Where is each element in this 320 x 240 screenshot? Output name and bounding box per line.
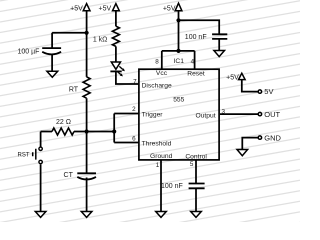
svg-text:100 µF: 100 µF <box>17 49 39 56</box>
svg-text:RT: RT <box>69 86 79 93</box>
svg-text:3: 3 <box>222 108 226 115</box>
svg-text:+5V: +5V <box>163 6 176 13</box>
svg-text:Output: Output <box>196 112 216 119</box>
svg-text:7: 7 <box>133 78 137 85</box>
svg-text:6: 6 <box>132 135 136 142</box>
svg-text:RST: RST <box>18 152 30 158</box>
svg-text:555: 555 <box>173 96 184 103</box>
svg-text:100 nF: 100 nF <box>161 183 183 190</box>
svg-text:100 nF: 100 nF <box>185 34 207 41</box>
svg-text:2: 2 <box>132 106 136 113</box>
svg-text:1: 1 <box>156 162 160 169</box>
svg-text:Vcc: Vcc <box>156 70 168 77</box>
svg-text:4: 4 <box>191 58 195 65</box>
svg-text:Control: Control <box>185 153 207 160</box>
svg-text:+5V: +5V <box>226 74 239 81</box>
svg-text:Ground: Ground <box>150 153 173 160</box>
svg-text:8: 8 <box>155 58 159 65</box>
svg-text:+5V: +5V <box>70 5 83 12</box>
svg-text:22 Ω: 22 Ω <box>56 119 71 126</box>
svg-text:Trigger: Trigger <box>142 111 164 118</box>
svg-text:1 kΩ: 1 kΩ <box>93 36 108 43</box>
svg-text:Threshold: Threshold <box>142 141 172 148</box>
svg-text:IC1: IC1 <box>174 58 185 65</box>
svg-text:OUT: OUT <box>264 110 280 119</box>
svg-text:GND: GND <box>264 133 281 142</box>
svg-text:+5V: +5V <box>99 5 112 12</box>
svg-text:5V: 5V <box>264 87 273 96</box>
svg-text:Discharge: Discharge <box>142 82 172 89</box>
svg-text:Reset: Reset <box>187 71 205 78</box>
svg-text:CT: CT <box>64 172 74 179</box>
svg-text:5: 5 <box>190 161 194 168</box>
